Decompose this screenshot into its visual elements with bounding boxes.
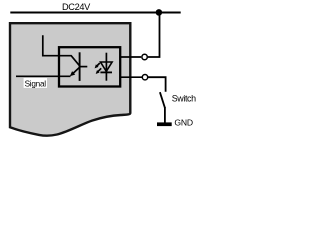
wire switch to ground <box>164 107 166 123</box>
LED D1 light arrow 2 <box>97 68 101 72</box>
wire from junction down to upper terminal <box>148 12 160 57</box>
wire Signal input to emitter <box>16 75 71 77</box>
terminal lower (open circle) <box>142 75 147 80</box>
LED D1 vertical lead <box>105 53 107 81</box>
wire optocoupler lower pin to lower terminal <box>121 76 143 78</box>
ground GND bar <box>157 122 172 126</box>
wire upper terminal to optocoupler pin <box>121 56 142 58</box>
wire internal collector stub and collector lead <box>43 35 80 66</box>
switch S1 blade (open) <box>160 92 165 108</box>
wire lower terminal to switch top contact <box>148 77 166 92</box>
svg-text:Switch: Switch <box>172 94 196 104</box>
label Signal (white box) <box>24 78 47 88</box>
phototransistor Q1 emitter lead with arrow <box>73 67 80 74</box>
svg-text:Signal: Signal <box>25 79 47 88</box>
svg-text:GND: GND <box>174 117 193 127</box>
optocoupler U1 body <box>59 47 120 86</box>
svg-text:DC24V: DC24V <box>62 2 91 12</box>
phototransistor Q1 base bar <box>79 52 81 81</box>
phototransistor Q1 base tick <box>80 66 88 68</box>
junction dot on DC24V rail <box>156 9 163 16</box>
wire DC24V rail <box>10 12 180 14</box>
module body (input device, torn bottom edge) <box>10 23 130 135</box>
terminal upper (open circle) <box>142 54 147 59</box>
LED D1 triangle (anode) <box>101 62 113 71</box>
LED D1 light arrow 1 <box>96 63 100 67</box>
LED D1 cathode bar <box>100 71 112 73</box>
